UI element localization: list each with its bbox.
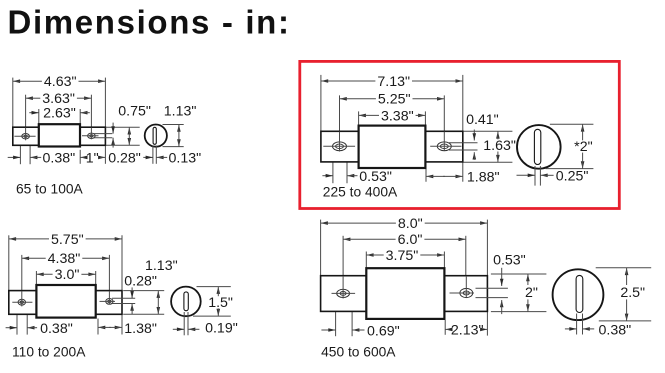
D4 left hole	[332, 276, 356, 299]
D4 dim 2.5in circle dia	[620, 268, 645, 321]
D1 end view circle	[145, 125, 167, 147]
D2 ext line left tab edge	[320, 75, 322, 131]
D4 right tab slot lines	[476, 288, 508, 297]
svg-text:7.13": 7.13"	[377, 74, 410, 90]
D3 left hole	[12, 291, 32, 306]
D4 dim 3.75in	[366, 248, 444, 264]
D1 left hole	[14, 128, 35, 141]
D3 ext line right hole center	[108, 255, 110, 305]
svg-text:225 to 400A: 225 to 400A	[323, 185, 398, 200]
D1 ext line left hole center	[25, 95, 27, 141]
D2 ext line right hole center	[443, 95, 445, 150]
D1 ext line body left	[38, 109, 40, 124]
D3 ext line left hole center	[21, 255, 23, 307]
svg-text:5.75": 5.75"	[51, 232, 84, 248]
D4 dim 0.53in slot width arrows	[500, 268, 504, 314]
D4 ext lines circle slot	[577, 314, 583, 335]
D1 ext lines circle slot	[153, 146, 156, 164]
D3 ext line body left	[35, 271, 37, 285]
D3 ext line 1.38 left	[97, 319, 99, 335]
svg-text:3.38": 3.38"	[381, 108, 414, 124]
D4 fuse left tab	[321, 276, 367, 312]
svg-text:0.38": 0.38"	[599, 323, 632, 339]
D2 dim 0.25in tab thickness	[517, 168, 589, 184]
D1 right hole	[82, 128, 99, 140]
D2 right hole	[430, 132, 461, 151]
D4 ext lines hole dia	[336, 300, 353, 337]
D4 ext line right tab edge	[486, 220, 488, 336]
D4 fuse right tab	[444, 276, 487, 312]
D4 label 450 to 600A	[321, 344, 396, 359]
svg-text:0.28": 0.28"	[108, 150, 141, 166]
svg-text:0.25": 0.25"	[556, 168, 589, 184]
D2 fuse right tab	[425, 131, 462, 162]
D1 fuse left tab	[13, 127, 39, 145]
D4 ext line body left	[365, 252, 367, 269]
D4 ext lines circle dia	[596, 268, 652, 321]
D2 text 0.41in	[466, 112, 499, 128]
D4 ext line body right	[443, 252, 445, 269]
svg-text:0.53": 0.53"	[359, 169, 392, 185]
svg-text:0.75": 0.75"	[118, 104, 151, 120]
svg-text:*2": *2"	[574, 139, 592, 155]
svg-text:6.0": 6.0"	[398, 232, 423, 248]
D4 fuse body	[366, 268, 444, 319]
svg-text:0.13": 0.13"	[169, 150, 202, 166]
D3 ext line left tab edge	[8, 235, 10, 290]
D2 label 225 to 400A	[323, 185, 398, 200]
svg-text:4.63": 4.63"	[44, 74, 77, 90]
D1 dim 0.38in hole	[8, 150, 75, 166]
D4 ext line right hole center	[465, 236, 467, 297]
D1 text 0.28in	[108, 150, 141, 166]
svg-text:2.5": 2.5"	[620, 285, 645, 301]
D3 dim 3.0in	[36, 267, 95, 283]
D4 text 0.53in	[493, 253, 526, 269]
D2 ext line 1.88 left	[425, 166, 427, 181]
D1 ext line right tab edge	[104, 78, 106, 164]
D4 dim 0.38in tab thickness	[565, 323, 631, 339]
D2 text 1.88in	[467, 169, 500, 185]
D2 left hole	[323, 132, 355, 152]
svg-text:0.53": 0.53"	[493, 253, 526, 269]
svg-text:4.38": 4.38"	[48, 251, 81, 267]
svg-text:65 to 100A: 65 to 100A	[16, 182, 84, 197]
D1 ext lines hole slot width	[20, 139, 30, 164]
D1 text 0.75in	[118, 104, 151, 120]
svg-text:1.13": 1.13"	[164, 104, 197, 120]
svg-text:110 to 200A: 110 to 200A	[12, 344, 86, 359]
D1 ext lines tab width	[106, 127, 140, 145]
D1 ext line right hole center	[90, 95, 92, 140]
D3 text 0.28in	[124, 273, 157, 289]
D1 dim 0.75in tab width	[128, 127, 132, 145]
svg-text:2.63": 2.63"	[43, 106, 76, 122]
D2 dim 0.41in slot width arrows	[473, 130, 477, 160]
D2 dim 5.25in	[340, 92, 445, 108]
D1 dim 4.63in	[13, 74, 106, 90]
D1 dim 2.63in	[29, 106, 90, 122]
svg-text:8.0": 8.0"	[398, 216, 423, 232]
D2 dim 2in circle dia	[574, 124, 592, 168]
svg-text:2": 2"	[525, 285, 538, 301]
svg-text:0.19": 0.19"	[205, 320, 238, 336]
D1 ext line body right	[79, 109, 81, 164]
svg-text:1.5": 1.5"	[208, 295, 233, 311]
D3 ext line right tab edge	[121, 235, 123, 334]
D3 ext lines circle slot	[184, 312, 188, 335]
D4 dim 0.69in hole	[321, 324, 399, 340]
svg-text:0.41": 0.41"	[466, 112, 499, 128]
svg-text:0.28": 0.28"	[124, 273, 157, 289]
D2 ext line left hole center	[339, 95, 341, 151]
D3 dim 5.75in	[9, 232, 122, 248]
D3 label 110 to 200A	[12, 344, 86, 359]
D2 ext line body right	[424, 111, 426, 125]
svg-text:3.0": 3.0"	[55, 267, 80, 283]
D2 dim 7.13in	[321, 74, 463, 90]
D3 dim 1.13in tab width	[157, 291, 161, 315]
D1 fuse right tab	[80, 127, 105, 145]
D3 dim 4.38in	[22, 251, 110, 267]
D4 ext lines tab width	[491, 274, 547, 312]
D2 end view circle	[517, 125, 561, 169]
D2 ext line right tab edge	[462, 75, 464, 182]
D2 ext lines circle slot	[535, 166, 540, 186]
D2 fuse body	[359, 126, 426, 168]
D1 dim 1.13in circle dia	[177, 125, 181, 147]
D3 ext lines circle dia	[193, 287, 231, 317]
D2 ext line body left	[358, 111, 360, 125]
D2 dim 1.88in tab length	[426, 175, 463, 179]
svg-text:Dimensions - in:: Dimensions - in:	[8, 4, 291, 41]
D4 end view circle	[553, 269, 604, 320]
D1 label 65 to 100A	[16, 182, 84, 197]
D3 ext lines hole dia	[17, 306, 27, 335]
title: Dimensions - in:	[8, 4, 291, 41]
D3 text 1.38in	[124, 321, 157, 337]
D1 fuse body	[39, 124, 80, 146]
svg-text:0.38": 0.38"	[40, 321, 73, 337]
D3 fuse body	[36, 285, 95, 318]
D4 ext line left hole center	[342, 236, 344, 299]
D1 ext line left tab edge	[12, 78, 14, 127]
D3 right hole	[100, 291, 116, 305]
D2 dim 1.63in tab width	[483, 131, 516, 162]
D3 dim 1.38in tab length	[98, 326, 122, 330]
D2 ext lines tab width	[463, 131, 512, 162]
D4 right hole	[450, 276, 475, 298]
D2 ext lines circle dia	[546, 124, 594, 168]
svg-text:1.63": 1.63"	[483, 138, 516, 154]
D1 dim 0.28in slot width arrows	[111, 123, 115, 148]
svg-text:0.69": 0.69"	[367, 324, 400, 340]
D2 right tab slot lines	[449, 143, 478, 150]
D4 dim 2in tab width	[525, 274, 538, 312]
D4 ext line left tab edge	[320, 220, 322, 276]
D2 ext lines hole dia	[333, 152, 347, 184]
red highlight box	[300, 61, 620, 208]
D4 dim 8.0in	[321, 216, 488, 232]
svg-text:1.38": 1.38"	[124, 321, 157, 337]
svg-text:1.13": 1.13"	[145, 258, 178, 274]
D3 fuse right tab	[96, 291, 122, 315]
D3 right tab slot lines	[112, 298, 135, 303]
svg-text:5.25": 5.25"	[378, 92, 411, 108]
D3 ext lines tab width	[123, 291, 164, 315]
D1 ext lines circle dia	[163, 125, 184, 147]
svg-text:0.38": 0.38"	[43, 150, 76, 166]
svg-text:3.75": 3.75"	[386, 248, 419, 264]
D4 dim 6.0in	[343, 232, 466, 248]
D2 dim 3.38in	[359, 108, 426, 124]
D3 text 1.13in	[145, 258, 178, 274]
D3 end view circle	[171, 287, 201, 317]
svg-text:1": 1"	[86, 150, 99, 166]
D2 fuse left tab	[321, 131, 359, 162]
D3 fuse left tab	[9, 291, 37, 315]
svg-text:1.88": 1.88"	[467, 169, 500, 185]
svg-text:2.13": 2.13"	[451, 322, 484, 338]
D4 ext line 2.13 left	[444, 320, 446, 335]
svg-text:450 to 600A: 450 to 600A	[321, 344, 396, 359]
D3 dim 0.19in tab thickness	[173, 320, 238, 336]
D1 right tab slot lines	[94, 134, 112, 138]
D3 dim 1.5in circle dia	[208, 287, 233, 317]
D1 text 1.13in	[164, 104, 197, 120]
D1 dim 3.63in	[26, 91, 92, 107]
D1 dim 0.13in tab thickness	[143, 150, 201, 166]
D3 dim 0.28in slot width arrows	[130, 287, 134, 314]
D2 dim 0.53in hole	[322, 169, 392, 185]
D3 ext line body right	[95, 271, 97, 285]
D4 dim 2.13in tab length	[445, 322, 487, 338]
D3 dim 0.38in hole	[6, 321, 73, 337]
D1 dim 1in tab length	[80, 150, 105, 166]
